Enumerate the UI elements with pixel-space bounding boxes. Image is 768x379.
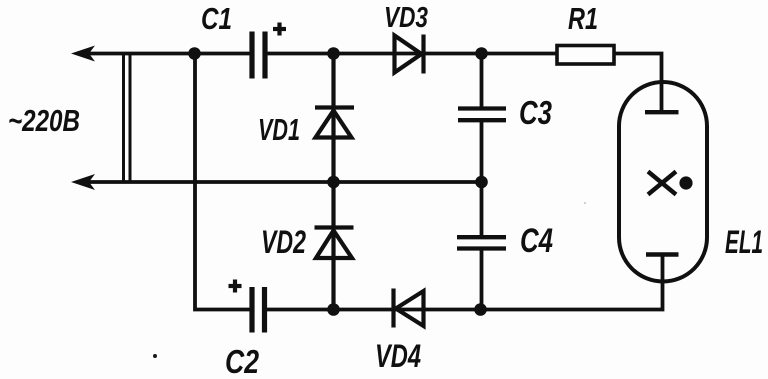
svg-text:EL1: EL1 <box>725 224 763 260</box>
svg-text:C3: C3 <box>519 94 552 131</box>
svg-text:C4: C4 <box>520 222 553 260</box>
svg-text:C1: C1 <box>201 1 232 36</box>
svg-text:VD1: VD1 <box>258 112 300 147</box>
svg-text:R1: R1 <box>568 1 598 36</box>
svg-text:VD3: VD3 <box>384 2 428 34</box>
svg-text:C2: C2 <box>225 343 260 379</box>
svg-text:VD4: VD4 <box>375 338 421 374</box>
svg-text:VD2: VD2 <box>261 224 306 260</box>
svg-text:~220В: ~220В <box>8 103 80 138</box>
